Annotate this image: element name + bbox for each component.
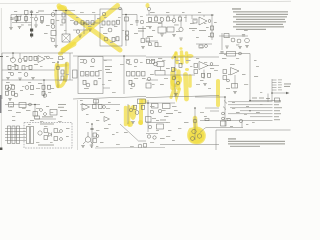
resistor bank X8 [142,72,146,77]
wire vertical [83,23,85,34]
left edge tick [0,56,3,58]
wire line 6 [250,116,273,118]
diode bridge box [62,34,70,42]
section C1 ink [5,100,78,150]
connector label smudge 3 [278,83,282,86]
ground [31,78,35,80]
text label smudge [58,104,66,105]
wire left vertical [10,15,12,28]
left page edge line [0,8,2,148]
highlighter dot top A3 corner [146,3,150,8]
notes title smudge [232,8,241,9]
bottom text line 1 [228,141,285,142]
highlighter C2 top right patch [140,99,146,105]
capacitor C4 [242,35,245,36]
component box [227,52,236,57]
resistor R71 [93,139,97,143]
resistor R29 [155,43,158,47]
resistor R66 [93,105,97,109]
wire vertical x66 [65,11,67,35]
label smudge 4 [274,110,280,111]
resistor R44 [42,85,45,89]
wire bus y53 [2,52,73,54]
pilot circle [210,63,213,66]
ground [160,34,164,36]
resistor R31 [224,34,229,38]
resistor bank X7 [137,72,141,77]
transistor Q42 [158,109,161,112]
resistor R56 [194,64,198,68]
transistor Q15 [231,38,235,42]
resistor R60 [223,70,227,74]
wire vertical x126 [125,15,127,47]
transistor Q44 [148,125,151,128]
resistor R69 [142,105,145,109]
component box [9,103,14,108]
wire line 4 [240,110,273,112]
resistor R20 [141,39,145,43]
pilot circle [147,7,150,10]
resistor R47 [61,70,64,74]
resistor R34 [34,56,37,60]
resistor R10 [91,21,94,25]
pilot circle on box top [119,7,122,10]
relay bank rect 4 [27,127,30,144]
corner wire [200,128,243,133]
bracket text smudge [284,83,291,84]
ground [8,99,12,101]
component box [146,83,151,88]
ground [179,38,183,40]
notes text line 8 [236,29,266,30]
wire lower horizontal [146,40,158,42]
ground [245,46,249,48]
bank wires y137.5 [5,137,26,139]
bottom text title smudge [228,138,236,139]
highlighter C2 stroke 2 [127,107,130,126]
capacitor C1 [10,18,13,19]
resistor R16 [116,37,119,41]
component box [221,121,227,126]
text label smudge box bottom [38,145,54,146]
wire lower horizontal [73,29,88,31]
op-amp U3 [38,56,45,63]
highlighter central zigzag [171,88,180,98]
ground [174,94,178,96]
section A2 ink [73,7,150,49]
pilot circle [29,103,32,106]
module box U1 [100,9,122,46]
resistor R35 [8,65,11,69]
resistor R25 [179,17,182,21]
text label smudge [166,113,173,114]
transistor Q1 [34,17,37,20]
section A3 ink [146,7,214,48]
wire vertical x35 [34,105,36,117]
connector stub 2 [272,82,277,84]
notes text line 6 [236,24,283,25]
highlighter C2 stroke 3 [139,101,143,124]
connector label smudge 5 [278,88,282,91]
ground [90,145,94,147]
contact circle 1 [222,112,225,115]
resistor R32 [24,56,27,60]
highlighter C2 bottom dot 2 [138,120,143,125]
resistor R21 [146,38,150,42]
highlighter 11+ mark 2 crossbar [179,55,184,58]
dashed relay box [24,123,72,149]
section B4 ink [219,52,291,103]
transistor Q9 [104,37,108,41]
bottom left corner mark [0,148,2,151]
resistor R50 [94,81,97,85]
wire horizontal [219,35,248,37]
transistor Q21 [24,73,28,77]
transistor Q29 [86,83,90,87]
transistor Q35 [172,76,176,80]
wire horizontal y141 [138,140,146,142]
component under highlight [59,57,63,60]
transistor Q28 [91,59,95,63]
transistor Q4 [51,38,55,42]
diode D1 [49,133,52,137]
relay box K2 [167,27,174,32]
text label smudge [252,98,257,99]
component box [138,99,146,104]
wire bus y57 [146,56,219,58]
highlighter X stroke A [59,6,120,50]
highlighter central stroke 2 [176,72,181,89]
transistor Q5 [74,21,78,25]
wire horizontal y133.5 [146,133,158,135]
bus stubs A1 [17,15,27,23]
highlighter big blob [187,126,206,144]
op-amp U2 [199,17,207,25]
contact circle 2 [222,117,225,120]
transistor Q17 [245,38,250,43]
text label smudge [42,116,53,117]
highlighter 11+ mark 1 diagonal [173,53,177,58]
section C2 ink [80,99,165,148]
transistor Q11 [160,18,164,22]
resistor R38 [29,65,32,69]
highlighter X stroke A start blob [57,5,67,11]
highlighter 11+ mark 3 vertical [185,53,189,62]
component box [50,110,57,116]
pilot circle [103,106,106,109]
highlighter central right bar [186,75,187,100]
resistor bank X3 [91,72,95,77]
relay bank rect 2 [12,126,15,144]
connector stub 1 [272,79,277,81]
wire arrow line y93 [272,92,286,94]
pilot circle [205,45,208,48]
transistor Q46 [153,136,156,139]
wire horizontal y97 [195,96,225,98]
resistor R3 [25,17,28,21]
highlighter right vertical bar [216,81,220,105]
capacitor C6 [90,128,93,129]
resistor R49 [83,80,86,84]
resistor R41 [6,91,9,95]
transistor Q2 [51,13,55,17]
ground [18,27,22,29]
highlighter hook right arm [65,64,67,80]
resistor R11 [102,21,105,25]
diode bridge diagonal [62,34,70,42]
pilot circle [208,20,211,23]
relay bank rect 5 [31,127,34,144]
section A4 notes ink [232,8,288,30]
transistor Q27 [83,60,87,64]
text label smudge [266,98,270,99]
switch contact slash 2 [223,107,226,110]
highlighter central loop [172,76,180,85]
transistor Q36 [176,81,179,84]
wire vertical [94,15,96,24]
resistor R12 [107,21,110,25]
relay bank rect 1 [8,126,11,144]
wire vertical x44 [43,80,45,98]
wire line 3 [230,107,273,109]
bottom text line 2 [228,143,285,144]
resistor R7 [62,19,65,23]
ground [18,78,22,80]
transistor Q40 [85,137,90,142]
ground [54,46,58,48]
section B3 ink [146,57,219,98]
transistor Q10 [140,20,144,24]
ground [78,35,82,37]
wire mid horizontal [73,22,100,24]
label smudge 6 [274,116,279,117]
transistor Q25 [43,94,46,97]
component box [163,104,171,109]
wire second segment [146,22,162,24]
ground [6,78,10,80]
resistor R4 [41,17,44,21]
transistor Q7 [102,12,106,16]
ground [233,92,237,94]
wire stub right [103,60,112,88]
bank wires y140.5 [5,140,26,142]
ground [172,35,176,37]
transistor legs [83,132,93,144]
resistor R45 [48,85,51,89]
resistor R30 [199,45,203,48]
resistor R51 [129,80,132,84]
wire vertical x225 [224,97,226,126]
text label smudge [138,28,146,29]
ground [238,47,242,49]
text box outline [216,130,291,150]
pilot circle [60,138,63,141]
highlighter central right bar 2 [188,76,192,86]
ground [131,122,135,124]
resistor R58 [202,73,205,77]
resistor bank X4 [96,72,100,77]
wire stub vertical [241,121,243,128]
wire vertical x70 [69,53,71,80]
wire vertical x56 [55,11,57,46]
polarized capacitor dark square 1 [30,29,33,32]
resistor R42 [12,91,15,95]
wire stub [180,19,182,27]
wire horizontal y100.5 [250,100,281,102]
ground [9,28,13,30]
resistor R9 [86,21,89,25]
component box [157,62,164,67]
transistor Q37 [38,131,42,135]
resistor R70 [93,133,97,137]
component box [146,117,152,123]
highlighter 11+ mark 1 vertical [176,53,177,63]
resistor R40 [12,85,15,89]
connector label smudge 4 [278,86,282,89]
wire bottom slant [146,96,219,98]
text label smudge [189,28,197,29]
wire vertical x58 under highlight [57,62,59,88]
resistor R72 [144,144,147,148]
label smudge 7 [274,119,280,120]
wire horizontal y107.5 [205,107,219,109]
wire bus continuation [75,14,100,16]
resistor R13 [112,21,115,25]
highlighter hook top bar [57,65,67,66]
transistor Q30 [126,60,130,64]
ground [148,27,152,29]
resistor R28 [211,33,214,37]
wire vertical x92 [91,124,93,148]
relay bank rect 3 [17,126,20,144]
wire lower right horizontal [196,43,212,45]
component box [275,98,280,102]
transistor Q38 [129,108,132,111]
resistor R63 [44,136,48,140]
text label smudge [105,69,110,70]
wire vertical x124 [123,56,125,94]
wire line 1 [228,101,273,103]
ground [203,84,207,86]
wire horizontal y119 [35,118,56,120]
resistor bank X5 [127,72,131,77]
highlighter dot below 11+ left [172,68,177,72]
boundary vertical x77 [77,100,79,150]
text label smudge [38,11,44,12]
resistor on line7 b [227,119,231,121]
notes text line 4 [236,19,285,20]
highlighter C2 middle blob [130,105,137,120]
arrowhead [286,92,290,94]
resistor R22 [149,18,152,22]
section C4 ink [195,94,291,151]
capacitor C5 [220,52,223,53]
resistor R5 [51,20,54,24]
bus stubs A3 [156,15,204,22]
text label smudge [147,36,153,37]
transistor Q3 [51,25,55,29]
spare box [155,71,165,76]
transistor Q13 [179,27,183,31]
wire vertical x128 under highlight [127,104,129,124]
text label smudge [259,98,264,99]
transistor Q24 [25,86,29,90]
highlighter hook bottom join [58,80,65,86]
transistor Q50 [191,137,195,141]
highlighter dot above hook [58,51,63,55]
transistor Q49 [197,134,201,138]
diamond contact 2 [43,112,47,116]
resistor R39 [6,85,9,89]
connector stub 5 [272,89,277,91]
highlighter 11+ right arm blob [187,54,194,58]
wire bus y56 [73,55,146,57]
transistor Q22 [7,87,10,90]
text label smudge box top [40,124,54,125]
transistor Q6 [76,30,80,34]
pilot circle [47,56,50,59]
wire vertical x250 [249,54,251,101]
highlighter X stroke B [63,6,118,52]
resistor R24 [167,17,170,21]
resistor R18 [126,31,129,35]
wire top horizontal [53,10,75,12]
wire left vertical x2 [1,53,3,99]
wire stub [161,21,163,27]
resistor on line7 [205,119,209,121]
resistor R64 [54,129,58,133]
resistor R8 [81,21,84,25]
wire horizontal y53.5 [219,53,250,55]
wire vertical x268 [267,94,269,102]
resistor R65 [54,137,58,141]
wire right of box [122,14,137,16]
section C3 ink [146,100,220,145]
transistor Q39 [135,111,139,115]
wire bus y80 [2,79,73,81]
transistor Q47 [193,119,197,123]
resistor R36 [15,65,18,69]
component box [94,100,99,104]
wire stub [208,65,219,67]
resistor R2 [18,16,21,20]
connector label smudge 1 [278,78,282,81]
connector label smudge 2 [278,81,282,84]
connector stub 3 [272,84,277,86]
wire vertical x204 [203,70,205,80]
wire stub [25,15,27,23]
wire bus top-left [11,14,75,16]
wire bus second [12,22,32,24]
highlighter C2 bottom dot [127,121,133,127]
relay box K1 [158,27,166,33]
component box [152,104,159,109]
wire bus A3 [146,14,214,16]
wire vertical x31.5 [31,10,33,38]
pilot circle [227,79,230,82]
transistor Q12 [172,19,176,23]
text label smudge [106,72,112,73]
transistor Q45 [147,135,150,138]
component box [51,31,56,36]
wire line 7 [200,120,273,122]
resistor R14 [117,20,120,24]
notes text line 3 [233,16,287,17]
edge connector box [73,70,78,78]
transistor Q33 [154,62,158,66]
resistor R68 [134,105,137,109]
resistor R15 [112,38,115,42]
